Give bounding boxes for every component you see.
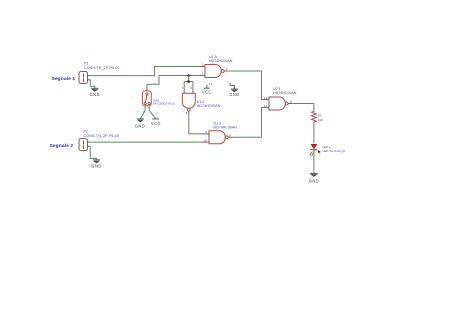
svg-text:HD74HC00AN: HD74HC00AN [273, 91, 297, 95]
ground GND (LED) [309, 174, 319, 184]
svg-text:8: 8 [229, 133, 231, 137]
node junction above U1:2 [187, 80, 190, 83]
svg-text:2: 2 [202, 71, 204, 75]
svg-text:HD74HC00AN: HD74HC00AN [214, 126, 238, 130]
svg-text:220: 220 [318, 118, 323, 122]
wire U1:A output to U2:1 pin12 [227, 71, 264, 100]
svg-text:3: 3 [226, 67, 228, 71]
nand gate U1:2 (vertical) [182, 86, 221, 115]
nand gate U1:3 [201, 121, 237, 143]
svg-text:12: 12 [264, 96, 268, 100]
node Segnale 2 label [50, 143, 74, 149]
wire junction down to U1:2 inputs [184, 76, 193, 90]
svg-text:GND: GND [135, 124, 145, 129]
svg-text:Segnale 1: Segnale 1 [52, 76, 76, 82]
svg-text:GND: GND [91, 164, 101, 169]
svg-text:CONN-TH_2P-P5.00: CONN-TH_2P-P5.00 [84, 66, 119, 70]
ground GND (U1 pin 7) [227, 80, 239, 97]
svg-text:VCC: VCC [151, 121, 161, 126]
switch SW1 [142, 89, 174, 111]
svg-text:LED-TH-5mm_R: LED-TH-5mm_R [323, 149, 346, 153]
svg-text:SK-12D02-VG5: SK-12D02-VG5 [153, 102, 175, 106]
svg-text:Segnale 2: Segnale 2 [50, 143, 74, 149]
svg-text:P2: P2 [84, 129, 88, 133]
node junction at U1:A pin2 line [187, 74, 190, 77]
svg-text:P1: P1 [84, 62, 88, 66]
mouse cursor [318, 150, 322, 155]
nand gate U2:1 [264, 87, 297, 110]
node Segnale 1 label [52, 76, 76, 82]
svg-text:9: 9 [205, 130, 207, 134]
svg-text:VCC: VCC [202, 89, 212, 94]
power VCC (SW1) [151, 119, 161, 126]
wire P1 pin1 to U1:A pin1 [90, 67, 200, 76]
wire LED to ground [313, 150, 315, 173]
svg-text:6: 6 [186, 111, 188, 115]
svg-text:14: 14 [209, 82, 213, 86]
wire SW1 pin to GND [140, 110, 145, 119]
power VCC (U1 pin 14) [202, 82, 212, 94]
wire P2 pin1 to U1:3 pin10 [90, 141, 201, 143]
svg-text:1: 1 [202, 62, 204, 66]
svg-text:HD74HC00AN: HD74HC00AN [209, 59, 233, 63]
svg-text:5: 5 [190, 86, 192, 90]
resistor R1 [312, 110, 324, 123]
LED LED1 [310, 144, 346, 156]
svg-text:CONN-TH_2P-P5.00: CONN-TH_2P-P5.00 [84, 134, 119, 138]
wire P1 pin2 to ground [90, 80, 95, 88]
wire U1:3 output to U2:1 pin13 [231, 108, 265, 138]
svg-text:GND: GND [229, 92, 239, 97]
nand gate U1:A [200, 55, 233, 78]
svg-text:13: 13 [264, 104, 268, 108]
connector P2 [79, 129, 119, 150]
svg-text:GND: GND [309, 178, 319, 183]
svg-text:4: 4 [182, 86, 184, 90]
ground GND (P2) [91, 160, 101, 169]
wire SW1 pin to VCC [149, 110, 156, 119]
wire switch common to U1:A pin2 [147, 76, 200, 91]
wire P2 pin2 to ground [90, 146, 96, 160]
connector P1 [79, 62, 119, 84]
wire resistor to LED [313, 123, 315, 143]
svg-text:10: 10 [203, 138, 207, 142]
wire U1:2 output to U1:3 pin9 [189, 114, 201, 134]
svg-text:HD74HC00AN: HD74HC00AN [197, 104, 221, 108]
wire U2:1 output to resistor [291, 104, 314, 111]
ground GND (SW1) [135, 119, 145, 129]
svg-text:GND: GND [90, 92, 100, 97]
ground GND (P1) [90, 88, 100, 97]
